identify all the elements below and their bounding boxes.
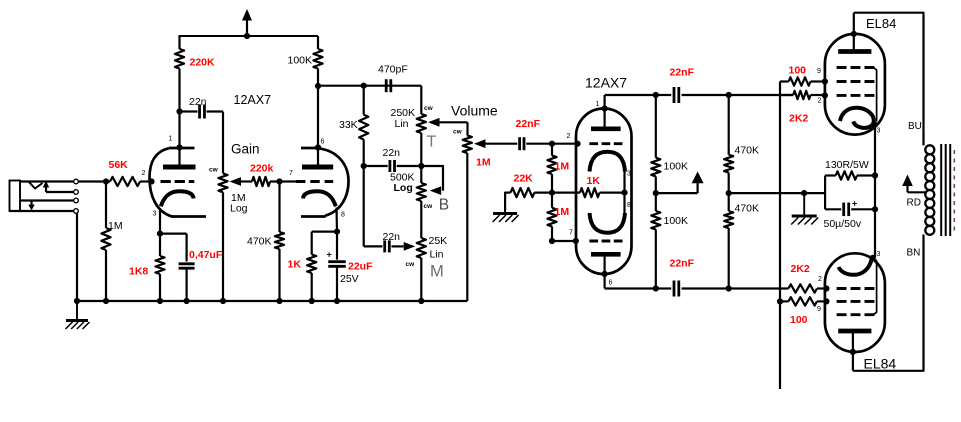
- svg-text:100K: 100K: [288, 55, 313, 67]
- svg-text:22nF: 22nF: [670, 67, 695, 79]
- svg-text:25K: 25K: [429, 235, 448, 247]
- svg-text:33K: 33K: [339, 119, 358, 131]
- svg-text:Gain: Gain: [231, 142, 260, 157]
- svg-text:EL84: EL84: [866, 16, 896, 31]
- svg-text:BN: BN: [907, 248, 921, 259]
- svg-text:1K: 1K: [288, 259, 302, 271]
- svg-text:0,47uF: 0,47uF: [189, 249, 223, 261]
- svg-text:470K: 470K: [735, 145, 760, 157]
- svg-text:100K: 100K: [664, 161, 689, 173]
- svg-text:130R/5W: 130R/5W: [825, 159, 869, 171]
- svg-text:2: 2: [567, 133, 571, 140]
- svg-text:2: 2: [142, 170, 146, 177]
- svg-text:1M: 1M: [555, 161, 570, 173]
- svg-text:Log: Log: [230, 203, 248, 215]
- svg-text:3: 3: [877, 128, 881, 135]
- svg-text:22nF: 22nF: [516, 118, 541, 130]
- svg-text:6: 6: [609, 280, 613, 287]
- svg-text:9: 9: [817, 306, 821, 313]
- svg-text:12AX7: 12AX7: [234, 93, 272, 107]
- svg-text:1M: 1M: [108, 220, 123, 232]
- svg-text:22nF: 22nF: [670, 258, 695, 270]
- svg-text:9: 9: [817, 68, 821, 75]
- svg-text:2: 2: [818, 98, 822, 105]
- svg-text:100K: 100K: [664, 215, 689, 227]
- svg-text:12AX7: 12AX7: [585, 75, 627, 91]
- svg-text:+: +: [852, 199, 857, 209]
- svg-text:22K: 22K: [514, 173, 534, 185]
- svg-text:Log: Log: [394, 182, 413, 194]
- svg-text:2K2: 2K2: [789, 113, 808, 125]
- svg-text:T: T: [427, 134, 437, 151]
- svg-text:22uF: 22uF: [348, 261, 373, 273]
- svg-text:Lin: Lin: [430, 249, 444, 261]
- svg-text:RD: RD: [907, 198, 921, 209]
- svg-text:3: 3: [627, 171, 631, 178]
- svg-text:cw: cw: [424, 105, 434, 112]
- svg-text:7: 7: [289, 170, 293, 177]
- svg-text:3: 3: [877, 251, 881, 258]
- svg-text:2K2: 2K2: [791, 263, 810, 275]
- svg-text:7: 7: [569, 230, 573, 237]
- svg-text:EL84: EL84: [864, 356, 897, 372]
- svg-text:2: 2: [818, 276, 822, 283]
- svg-text:100: 100: [790, 314, 808, 326]
- svg-text:3: 3: [153, 211, 157, 218]
- svg-text:1M: 1M: [555, 206, 570, 218]
- svg-text:50µ/50v: 50µ/50v: [824, 218, 862, 230]
- svg-text:470K: 470K: [735, 203, 760, 215]
- svg-text:1K: 1K: [587, 175, 601, 187]
- svg-text:1M: 1M: [476, 157, 491, 169]
- svg-text:cw: cw: [424, 203, 434, 210]
- svg-text:1: 1: [596, 101, 600, 108]
- svg-text:56K: 56K: [109, 159, 129, 171]
- svg-text:6: 6: [321, 139, 325, 146]
- svg-text:cw: cw: [453, 129, 463, 136]
- svg-text:8: 8: [341, 211, 345, 218]
- svg-text:Lin: Lin: [395, 118, 409, 130]
- svg-text:22n: 22n: [383, 147, 401, 159]
- svg-text:cw: cw: [406, 261, 416, 268]
- svg-text:470K: 470K: [247, 236, 272, 248]
- svg-text:220K: 220K: [190, 57, 216, 69]
- svg-text:cw: cw: [209, 167, 219, 174]
- svg-text:+: +: [327, 250, 332, 260]
- svg-text:100: 100: [789, 65, 807, 77]
- svg-text:22n: 22n: [189, 96, 207, 108]
- svg-text:25V: 25V: [340, 273, 359, 285]
- svg-text:8: 8: [627, 202, 631, 209]
- svg-text:Volume: Volume: [451, 103, 498, 119]
- svg-text:22n: 22n: [383, 231, 401, 243]
- svg-text:1: 1: [169, 136, 173, 143]
- svg-text:BU: BU: [908, 121, 922, 132]
- svg-text:1K8: 1K8: [129, 266, 148, 278]
- svg-text:B: B: [439, 197, 449, 214]
- svg-text:M: M: [430, 262, 444, 280]
- svg-text:470pF: 470pF: [378, 64, 408, 76]
- svg-text:220k: 220k: [250, 163, 274, 175]
